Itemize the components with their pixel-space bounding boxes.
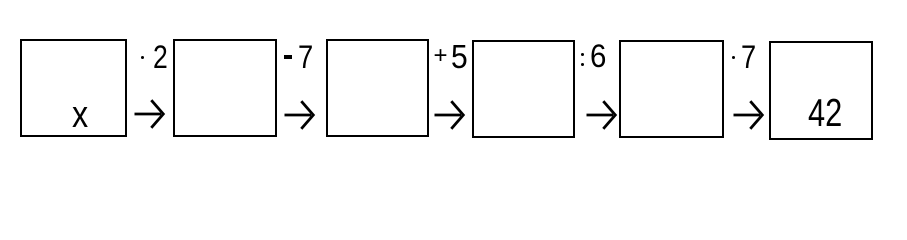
label middle dot of "· 7" (732, 56, 735, 59)
box 4 (472, 40, 576, 138)
wire arrow 3 (434, 99, 464, 131)
box 2 (173, 39, 277, 137)
label colon lower dot (581, 63, 584, 66)
wire arrow 1 (134, 98, 164, 130)
box 5 (619, 40, 723, 138)
label middle dot of "· 2" (141, 56, 144, 59)
label digit 6 (590, 40, 606, 72)
label digit 7 (298, 41, 313, 73)
label plus sign of "+ 5" (434, 44, 448, 68)
value 42 (808, 95, 842, 134)
wire arrow 5 (733, 99, 763, 131)
label minus bar of "- 7" (284, 55, 292, 59)
box 1 (input, contains x) (20, 39, 126, 137)
wire arrow 2 (284, 99, 314, 131)
value x (72, 96, 88, 134)
wire arrow 4 (586, 99, 616, 131)
box 3 (326, 39, 429, 137)
label digit 2 (153, 41, 168, 73)
label digit 7 (741, 41, 756, 73)
box 6 (result, contains 42) (769, 41, 874, 140)
label digit 5 (451, 41, 468, 73)
label colon upper dot of ": 6" (581, 53, 584, 56)
